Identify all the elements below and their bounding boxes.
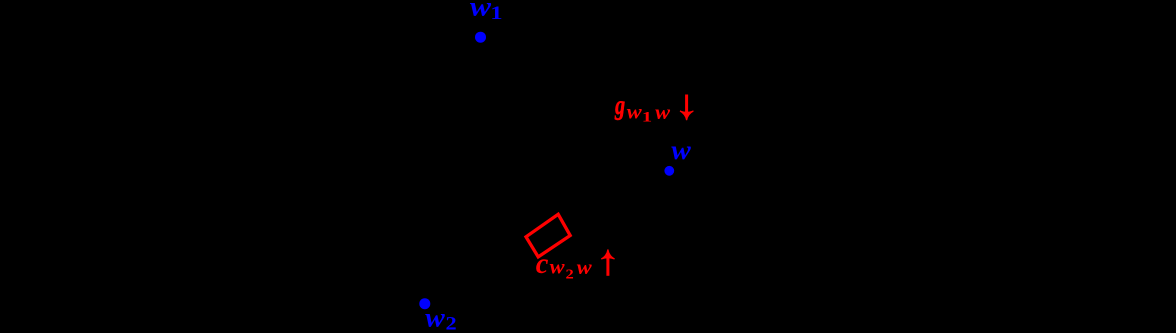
rotated rectangle (red box) [526, 214, 570, 257]
svg-text:w: w [671, 136, 692, 166]
node w dot [664, 166, 674, 176]
svg-text:w: w [655, 100, 670, 123]
down arrow [680, 95, 693, 121]
gradient label g_w1w [614, 91, 670, 124]
svg-text:1: 1 [642, 108, 652, 124]
svg-text:w: w [550, 255, 565, 278]
node w2 label [425, 303, 456, 333]
svg-text:c: c [536, 247, 549, 280]
svg-text:g: g [614, 91, 625, 121]
node w1 label [470, 0, 503, 23]
svg-text:w: w [425, 303, 446, 333]
svg-text:2: 2 [446, 314, 457, 333]
node w2 dot [419, 298, 430, 309]
svg-text:2: 2 [566, 268, 574, 282]
svg-text:1: 1 [490, 2, 502, 24]
node w1 dot [475, 32, 486, 43]
svg-text:w: w [577, 255, 592, 278]
up arrow [601, 249, 614, 275]
svg-text:w: w [627, 100, 642, 123]
label c_w2w [536, 247, 592, 282]
svg-text:w: w [470, 0, 491, 22]
